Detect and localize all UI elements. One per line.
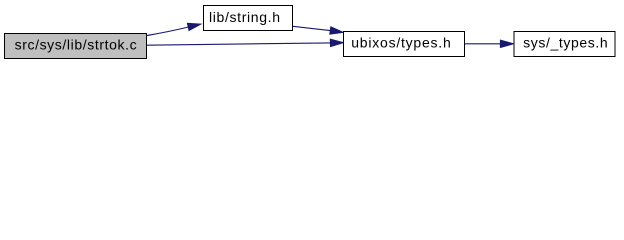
edge strtok.c -> ubixos/types.h : wire [147,43,331,45]
svg-text:ubixos/types.h: ubixos/types.h [351,35,451,51]
edge ubixos/types.h -> sys/_types.h : arrowhead [500,40,513,47]
edge strtok.c -> ubixos/types.h : arrowhead [330,39,343,46]
svg-text:sys/_types.h: sys/_types.h [523,35,608,51]
svg-text:lib/string.h: lib/string.h [209,9,280,25]
node sys/_types.h [514,32,615,57]
svg-text:src/sys/lib/strtok.c: src/sys/lib/strtok.c [15,37,137,53]
edge strtok.c -> lib/string.h : arrowhead [187,23,201,30]
edge ubixos/types.h -> sys/_types.h : wire [465,43,502,45]
node lib/string.h [204,6,293,31]
node src/sys/lib/strtok.c (current file, grey) [5,34,147,59]
node ubixos/types.h [344,32,465,57]
edge strtok.c -> lib/string.h : wire [147,27,189,36]
edge lib/string.h -> ubixos/types.h : wire [293,26,331,30]
edge lib/string.h -> ubixos/types.h : arrowhead [330,27,343,34]
